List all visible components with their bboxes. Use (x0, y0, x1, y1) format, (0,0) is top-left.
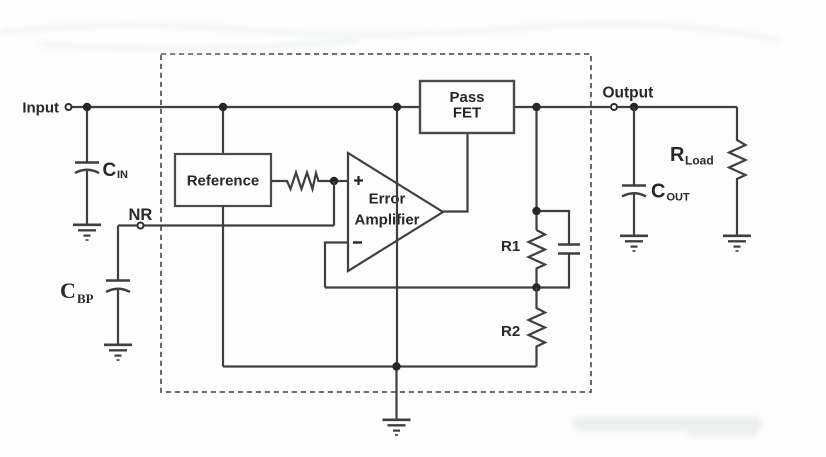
ground (CBP) (104, 345, 132, 360)
node top rail / bias (393, 103, 401, 111)
svg-text:Input: Input (22, 100, 59, 117)
node (resistor/+ input) (330, 177, 338, 185)
svg-text:Error: Error (369, 191, 406, 208)
svg-text:FET: FET (453, 105, 481, 122)
svg-text:C: C (103, 160, 117, 181)
resistor R1 (529, 230, 546, 288)
wire top rail output to RLoad (618, 106, 737, 108)
wire junction to + input (334, 180, 348, 182)
svg-text:Amplifier: Amplifier (354, 212, 419, 229)
svg-text:R2: R2 (501, 323, 520, 340)
plus input mark (354, 179, 363, 181)
ground (COUT) (620, 236, 648, 251)
wire NR drop to CBP (117, 226, 119, 281)
wire output drop to R1 (535, 107, 537, 230)
output terminal (611, 104, 617, 110)
wire - input feedback (325, 243, 348, 288)
wire ground stub (395, 367, 397, 420)
faint watermark remnant bottom right (572, 416, 762, 437)
svg-text:Output: Output (603, 85, 654, 102)
node input / CIN (83, 103, 91, 111)
resistor (reference to amp) (271, 173, 334, 190)
svg-text:NR: NR (129, 206, 153, 224)
wire reference supply drop (222, 107, 224, 154)
wire top rail left (input to Pass FET) (72, 106, 420, 108)
node top rail / R1 (532, 103, 540, 111)
node R1 top (532, 207, 540, 215)
resistor RLoad (729, 107, 746, 235)
wire NR net (118, 224, 138, 226)
ground (RLoad) (723, 236, 751, 251)
ground (main) (383, 420, 411, 435)
svg-text:IN: IN (117, 169, 128, 181)
wire bottom ground rail (223, 365, 537, 367)
wire NR rise to + node (333, 181, 335, 226)
wire bias line through amp (396, 107, 398, 367)
NR terminal (138, 223, 144, 229)
node R1/R2 midpoint (532, 283, 540, 291)
minus input mark (353, 241, 362, 243)
svg-text:Pass: Pass (449, 89, 484, 106)
block Pass FET (420, 81, 514, 133)
capacitor CBP (106, 281, 130, 345)
svg-text:Load: Load (685, 154, 714, 168)
wire amp output to Pass FET (443, 133, 468, 212)
ground (CIN) (73, 225, 101, 240)
svg-text:C: C (651, 181, 665, 203)
wire feedback rail (325, 286, 537, 288)
capacitor COUT (622, 107, 646, 235)
node bottom rail / ground (392, 362, 400, 370)
op-amp U1 Error Amplifier (348, 153, 443, 271)
wire reference ground drop (222, 206, 224, 367)
svg-text:R: R (670, 144, 685, 166)
capacitor (feed-forward, parallel R1) (537, 211, 581, 288)
svg-text:C: C (60, 278, 76, 303)
block Reference (175, 154, 271, 206)
svg-text:R1: R1 (501, 238, 520, 255)
capacitor CIN (75, 107, 99, 224)
node top rail / reference (219, 103, 227, 111)
wire top rail right (Pass FET to output circle) (514, 106, 610, 108)
input terminal (66, 104, 72, 110)
svg-text:BP: BP (77, 291, 94, 306)
resistor R2 (529, 288, 546, 367)
svg-text:Reference: Reference (187, 173, 260, 190)
node output / COUT (630, 103, 638, 111)
svg-text:OUT: OUT (667, 192, 691, 204)
dashed IC boundary box (161, 54, 591, 392)
